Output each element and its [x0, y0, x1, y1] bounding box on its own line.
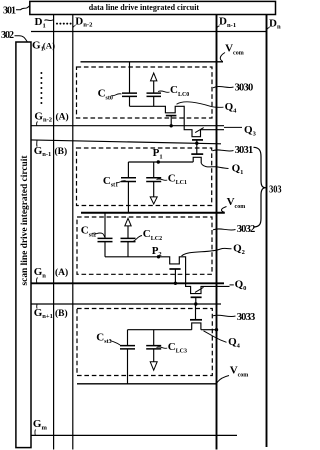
- common electrode down arrow of CLC1: [150, 197, 157, 204]
- label Q0: [235, 279, 247, 292]
- Vcom rail top: [81, 61, 224, 63]
- pixel node wire of 3030 with TFT source dip, drain leg and TFT Q3 source dip: [130, 106, 225, 136]
- leader from 301 to box: [16, 6, 30, 10]
- label Cst2: [81, 225, 96, 239]
- tick Gn-1 label to line: [36, 140, 39, 146]
- common electrode down arrow of CLC3: [150, 362, 157, 371]
- gate line G1: [31, 31, 267, 33]
- label 3033: [237, 312, 256, 323]
- TFT Q1 gate bar: [191, 153, 203, 155]
- TFT gate bar in 3030: [166, 115, 177, 117]
- capacitor CLC3 top lead: [153, 330, 155, 346]
- label 301: [3, 6, 16, 17]
- gate line Gn-2(A): [31, 125, 224, 127]
- leader from 302 to scan box: [15, 36, 28, 42]
- leader CLC1 label to cap: [157, 179, 168, 180]
- capacitor CLC1 lower lead: [153, 182, 155, 197]
- TFT Q3 gate bar: [192, 139, 203, 141]
- label Vcom top: [225, 43, 244, 57]
- tick Gn-2 label to line: [36, 122, 39, 126]
- junction dot Q3 gate on Gn-1: [195, 142, 198, 145]
- capacitor CLC1 top lead: [153, 162, 155, 178]
- tick Gn+1 label to line: [36, 305, 39, 309]
- label CLC1: [168, 172, 187, 186]
- capacitor CLC2: [121, 238, 136, 241]
- TFT Q1 channel: [193, 157, 201, 163]
- leader Cst3 label to cap: [111, 341, 121, 346]
- label Gn-2(A): [34, 110, 68, 123]
- TFT in 3033 gate bar: [190, 319, 202, 321]
- leader Q4: [177, 102, 224, 107]
- capacitor Cst1 top lead: [127, 162, 129, 178]
- TFT Q0 gate lead: [195, 297, 197, 304]
- Vcom rail bottom: [77, 383, 217, 385]
- leader Cst1 label to cap: [116, 181, 126, 183]
- svg-text:(B): (B): [55, 146, 68, 157]
- label Gn-1(B): [34, 145, 67, 158]
- label Dn-1: [219, 16, 236, 29]
- svg-text:(A): (A): [43, 40, 55, 50]
- label Vcom bottom: [230, 365, 249, 379]
- capacitor Cst1 bottom lead to Vcom rail: [127, 182, 129, 213]
- label 3032: [237, 224, 256, 235]
- label CLC2: [143, 228, 162, 242]
- label D1: [35, 16, 46, 29]
- label Gn+1(B): [34, 307, 68, 320]
- leader Vcom bottom to rail: [217, 376, 229, 383]
- leader 3030 to box: [213, 87, 234, 88]
- junction dot gate to Gn-2: [170, 124, 173, 127]
- data line Dn: [266, 15, 268, 448]
- gate line Gn-1(B): [31, 140, 221, 144]
- TFT Q0 gate bar: [191, 296, 202, 298]
- pixel node wire P1: [128, 161, 193, 163]
- label Cst0: [98, 88, 113, 102]
- svg-text:scan line drive integrated cir: scan line drive integrated circuit: [19, 155, 29, 286]
- label Gm: [33, 418, 48, 431]
- tick Gm label to line: [34, 430, 37, 436]
- label Dn: [269, 17, 281, 30]
- node P1 dot: [157, 160, 160, 163]
- svg-text:301: 301: [3, 6, 16, 17]
- capacitor CLC0: [147, 93, 162, 96]
- label P2: [152, 245, 162, 258]
- label Dn-2: [75, 15, 93, 28]
- svg-text:(A): (A): [55, 267, 68, 278]
- leader CLC0 label to cap: [158, 91, 170, 92]
- label 3031: [235, 145, 254, 156]
- label Q4: [225, 101, 238, 114]
- TFT in 3033 drain wire to Dn-1: [201, 329, 217, 331]
- svg-text:302: 302: [1, 30, 14, 41]
- capacitor CLC3: [146, 346, 161, 349]
- TFT in 3033 channel: [192, 323, 201, 330]
- capacitor Cst0 bottom lead: [129, 96, 131, 106]
- capacitor Cst2: [98, 238, 113, 241]
- capacitor CLC2 bottom lead: [127, 242, 129, 257]
- label G1(A): [32, 39, 55, 52]
- svg-text:(A): (A): [56, 111, 69, 122]
- gate line Gn+1(B): [31, 303, 221, 305]
- capacitor Cst0 top lead: [129, 62, 131, 93]
- capacitor Cst3 bottom lead to Vcom rail: [127, 349, 129, 384]
- leader dash to Q3: [224, 126, 242, 128]
- capacitor Cst2 bottom lead: [104, 242, 106, 257]
- svg-text:303: 303: [269, 185, 282, 196]
- pixel node wire of 3033: [128, 329, 192, 331]
- vertical ellipsis dots below G1: [40, 72, 42, 104]
- tilde leader D1 to line: [45, 19, 54, 22]
- horizontal ellipsis dots between D1 and Dn-2: [56, 23, 72, 25]
- label CLC0: [170, 84, 189, 98]
- leader dash to Q0: [230, 284, 234, 286]
- leader Q4 bottom: [204, 331, 227, 343]
- svg-text:3032: 3032: [237, 224, 256, 235]
- pixel circuit dashed box 3030: [77, 67, 213, 118]
- gate line Gm: [32, 434, 238, 436]
- capacitor CLC1: [146, 178, 161, 182]
- svg-text:3030: 3030: [235, 82, 254, 93]
- label 302: [1, 30, 14, 41]
- tick Dn-2 label to line: [73, 26, 76, 29]
- data line drive IC title text: [89, 2, 200, 12]
- leader Cst2 label to cap: [93, 233, 105, 237]
- tick Dn-1 label to line: [217, 26, 220, 28]
- junction dot Q0 gate on Gn+1: [194, 302, 197, 305]
- label Gn(A): [34, 266, 69, 279]
- label P1: [153, 147, 163, 160]
- label Q1: [232, 162, 244, 175]
- common electrode arrow of CLC0: [151, 73, 157, 81]
- svg-text:data line drive integrated cir: data line drive integrated circuit: [89, 2, 200, 12]
- tick Dn label to line: [267, 27, 270, 29]
- brace 303: [254, 147, 266, 227]
- capacitor Cst3 top lead: [127, 330, 129, 346]
- TFT Q2 gate bar: [169, 268, 180, 270]
- data line Dn-1: [216, 15, 218, 450]
- label Q3: [244, 124, 257, 137]
- label Cst1: [103, 175, 118, 189]
- tick Gn label to line: [36, 278, 39, 284]
- TFT Q2 gate lead: [174, 269, 176, 283]
- junction dot Q2 gate on Gn: [174, 282, 177, 285]
- capacitor CLC0 upper lead: [153, 81, 155, 93]
- scan line drive integrated circuit box 302: [16, 42, 31, 448]
- data line drive integrated circuit box 301: [30, 1, 276, 14]
- leader 3031 to box: [212, 150, 233, 151]
- label Q2: [233, 242, 245, 255]
- leader CLC2 label to cap: [133, 236, 142, 242]
- leader Cst0 label to cap: [112, 94, 122, 96]
- label 303: [269, 185, 282, 196]
- leader Vcom top to rail: [220, 53, 225, 62]
- TFT Q3 gate lead: [196, 140, 198, 143]
- gate line Gn(A): [31, 282, 224, 284]
- capacitor Cst3: [120, 346, 135, 349]
- label Vcom middle: [227, 196, 246, 210]
- leader CLC3 label to cap: [157, 347, 168, 348]
- capacitor Cst2 top lead from Vcom rail: [104, 213, 106, 239]
- leader Vcom middle to rail: [221, 207, 226, 213]
- leader Q0 diagonal at TFT: [195, 287, 204, 292]
- pixel circuit dashed box 3031: [77, 148, 212, 206]
- label Cst3: [96, 332, 111, 346]
- capacitor CLC3 lower lead: [153, 349, 155, 362]
- label 3030: [235, 82, 254, 93]
- pixel circuit dashed box 3032: [77, 217, 212, 274]
- TFT in 3033 gate feed lead from Gn+1: [195, 304, 197, 319]
- label Q4 bottom: [228, 336, 241, 349]
- svg-text:3031: 3031: [235, 145, 254, 156]
- data line D1: [53, 15, 55, 450]
- svg-text:3033: 3033: [237, 312, 256, 323]
- Vcom rail middle: [81, 212, 225, 214]
- scan line drive IC title text (vertical): [19, 155, 29, 286]
- pixel circuit dashed box 3033: [77, 309, 212, 376]
- common electrode arrow of CLC2: [125, 218, 131, 226]
- pixel node wire P2 with TFT Q2 source dip, drain leg and TFT Q0 source dip: [105, 257, 230, 294]
- leader 3033 to box: [213, 315, 236, 316]
- leader Q2: [182, 248, 232, 256]
- leader Q3 diagonal at TFT: [195, 128, 204, 133]
- TFT Q1 gate feed lead from Gn-1: [196, 143, 198, 154]
- TFT Q1 drain wire to Dn-1: [201, 163, 228, 168]
- TFT gate lead in 3030: [170, 116, 172, 126]
- svg-text:(B): (B): [55, 308, 68, 319]
- capacitor Cst1: [121, 178, 136, 182]
- label CLC3: [168, 341, 187, 355]
- capacitor CLC2 upper lead: [127, 226, 129, 239]
- data line Dn-2: [72, 15, 74, 450]
- capacitor Cst0: [122, 93, 137, 96]
- junction dot drain on Dn-1: [215, 328, 218, 331]
- node P2 dot: [157, 255, 160, 258]
- leader 3032 to box: [213, 229, 236, 230]
- capacitor CLC0 bottom lead: [153, 96, 155, 106]
